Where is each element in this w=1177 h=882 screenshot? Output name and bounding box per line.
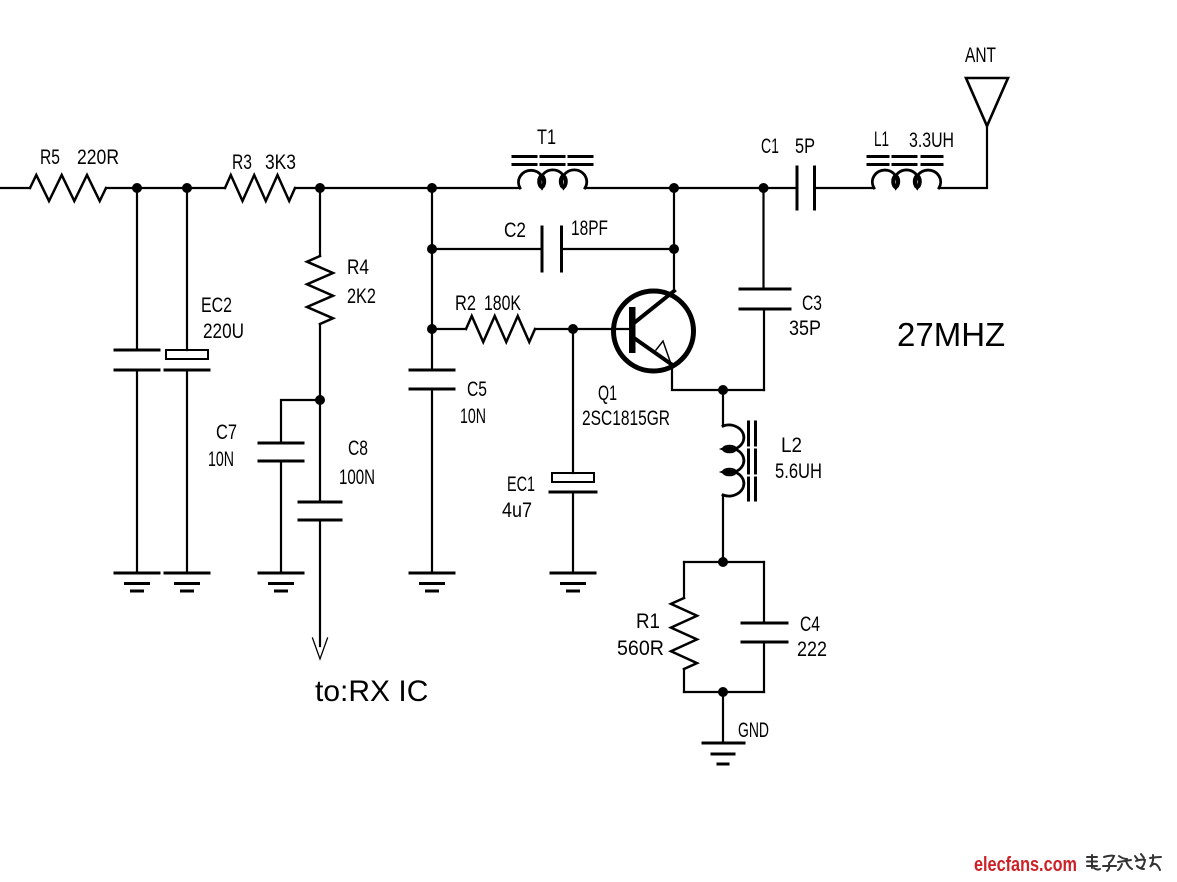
svg-text:2SC1815GR: 2SC1815GR	[582, 407, 670, 430]
wire node G to C8	[319, 400, 321, 502]
wire T1 to C1	[585, 187, 797, 189]
capacitor C8	[299, 502, 341, 520]
junction node C	[315, 183, 325, 193]
wire node J down to EC1	[572, 329, 574, 473]
watermark chinese characters	[1087, 854, 1161, 871]
svg-text:R2: R2	[455, 292, 476, 315]
resistor R2	[466, 316, 535, 342]
ground	[551, 573, 595, 591]
wire L2 to node L	[722, 495, 724, 562]
junction node F (C3 net)	[759, 183, 769, 193]
wire node B down	[186, 188, 188, 350]
wire cap to ground	[136, 370, 138, 573]
wire C7 to ground	[280, 461, 282, 573]
junction node I	[427, 324, 437, 334]
wire C2 to node E	[562, 248, 675, 250]
wire R1 top lead	[683, 562, 685, 598]
svg-text:5.6UH: 5.6UH	[775, 460, 822, 483]
transistor Q1 emitter arrow	[656, 341, 671, 364]
svg-text:T1: T1	[537, 126, 556, 149]
wire node G to C7	[281, 400, 320, 443]
transistor Q1 body	[614, 291, 694, 371]
svg-text:4u7: 4u7	[502, 499, 532, 522]
resistor R5	[30, 175, 106, 201]
ground	[115, 573, 159, 591]
wire R4 to node G	[319, 324, 321, 400]
capacitor C5	[410, 370, 454, 389]
svg-text:ANT: ANT	[965, 44, 996, 67]
svg-text:L1: L1	[874, 128, 889, 151]
wire C5 to ground	[431, 389, 433, 573]
capacitor C3	[740, 289, 790, 309]
junction node J (base net)	[568, 324, 578, 334]
svg-text:C5: C5	[467, 378, 487, 401]
wire C4 bottom lead	[763, 642, 765, 692]
wire emitter down	[672, 364, 764, 390]
wire node A down	[136, 188, 138, 350]
transformer T1 coil	[519, 170, 587, 188]
svg-text:3.3UH: 3.3UH	[909, 129, 954, 152]
svg-text:220U: 220U	[203, 320, 244, 343]
wire R1 bottom lead	[683, 669, 685, 692]
inductor L1 core	[868, 157, 942, 165]
resistor R4	[307, 256, 333, 324]
antenna ANT	[966, 78, 1008, 126]
resistor R1	[671, 598, 697, 669]
svg-text:EC2: EC2	[201, 294, 232, 317]
svg-text:R3: R3	[232, 151, 252, 174]
ground	[165, 573, 209, 591]
ground	[259, 573, 303, 591]
wire node F down to C3	[762, 188, 764, 289]
svg-text:elecfans.com: elecfans.com	[974, 854, 1077, 876]
junction node A	[132, 183, 142, 193]
transformer T1 core	[513, 157, 592, 165]
svg-text:100N: 100N	[339, 466, 375, 489]
svg-text:R5: R5	[40, 146, 60, 169]
wire node D down	[431, 188, 433, 370]
svg-text:C1: C1	[761, 135, 779, 158]
svg-text:35P: 35P	[789, 317, 821, 340]
svg-text:222: 222	[797, 638, 827, 661]
junction node K	[718, 385, 728, 395]
resistor R3	[225, 175, 295, 201]
wire node M to ground	[722, 692, 724, 743]
wire C8 to RX IC	[319, 520, 321, 646]
svg-text:10N: 10N	[208, 448, 234, 471]
svg-text:C8: C8	[348, 437, 368, 460]
junction node M	[718, 687, 728, 697]
svg-text:C2: C2	[504, 219, 526, 242]
svg-text:R4: R4	[347, 256, 369, 279]
svg-text:27MHZ: 27MHZ	[897, 316, 1005, 353]
svg-text:R1: R1	[636, 610, 660, 633]
svg-text:5P: 5P	[795, 135, 815, 158]
svg-text:220R: 220R	[77, 146, 119, 169]
junction node B	[182, 183, 192, 193]
svg-text:EC1: EC1	[507, 473, 535, 496]
junction node D	[427, 183, 437, 193]
svg-text:C7: C7	[216, 421, 237, 444]
svg-text:3K3: 3K3	[265, 151, 296, 174]
transistor Q1 base bar	[629, 307, 636, 353]
inductor L2 core	[749, 422, 756, 500]
arrow to RX IC	[313, 638, 328, 659]
wire L1 to antenna	[939, 126, 987, 188]
transistor Q1 emitter stroke	[634, 338, 671, 364]
wire collector up to node E	[673, 188, 675, 291]
svg-text:180K: 180K	[484, 292, 521, 315]
inductor L2 coil	[723, 425, 744, 496]
wire R3 to T1	[295, 187, 520, 189]
wire R1/C4 top	[684, 561, 764, 563]
wire R5 to R3	[106, 187, 225, 189]
svg-text:L2: L2	[781, 434, 802, 457]
ground	[410, 573, 454, 591]
svg-text:560R: 560R	[617, 637, 664, 660]
svg-text:C3: C3	[802, 292, 822, 315]
inductor L1 crossover loops	[892, 175, 899, 188]
wire EC2 to ground	[186, 370, 188, 573]
junction node G	[315, 395, 325, 405]
wire node C down to R4	[319, 188, 321, 256]
transformer T1 crossover loops	[538, 175, 545, 188]
wire R1/C4 bottom	[684, 691, 764, 693]
svg-text:18PF: 18PF	[571, 217, 608, 240]
svg-text:C4: C4	[800, 613, 820, 636]
capacitor (node A bypass)	[115, 350, 159, 370]
capacitor EC1	[552, 473, 594, 482]
wire node I to R2	[432, 328, 466, 330]
wire main rail left edge to R5	[0, 187, 30, 189]
junction node E2	[669, 244, 679, 254]
wire node H to C2	[432, 248, 542, 250]
wire EC1 to ground	[572, 492, 574, 573]
ground GND	[703, 743, 744, 764]
junction node H	[427, 244, 437, 254]
transistor Q1 collector stroke	[634, 291, 674, 323]
svg-text:2K2: 2K2	[347, 285, 376, 308]
capacitor C1	[797, 167, 815, 209]
svg-text:to:RX IC: to:RX IC	[315, 675, 428, 708]
wire C1 to L1	[815, 187, 875, 189]
wire R2 to base node	[535, 328, 629, 330]
capacitor C4	[742, 623, 787, 642]
svg-text:GND: GND	[738, 719, 769, 742]
capacitor C7	[259, 443, 303, 461]
inductor L1 coil	[872, 170, 940, 188]
capacitor EC2	[166, 350, 208, 359]
junction node L	[718, 557, 728, 567]
inductor L2 crossover loops	[723, 446, 736, 453]
svg-text:10N: 10N	[460, 405, 486, 428]
wire C3 bottom lead	[763, 309, 765, 390]
wire C4 top lead	[763, 562, 765, 623]
capacitor C2	[542, 227, 562, 271]
junction node E (collector net)	[669, 183, 679, 193]
svg-text:Q1: Q1	[598, 382, 617, 405]
wire node K to L2	[722, 390, 724, 426]
